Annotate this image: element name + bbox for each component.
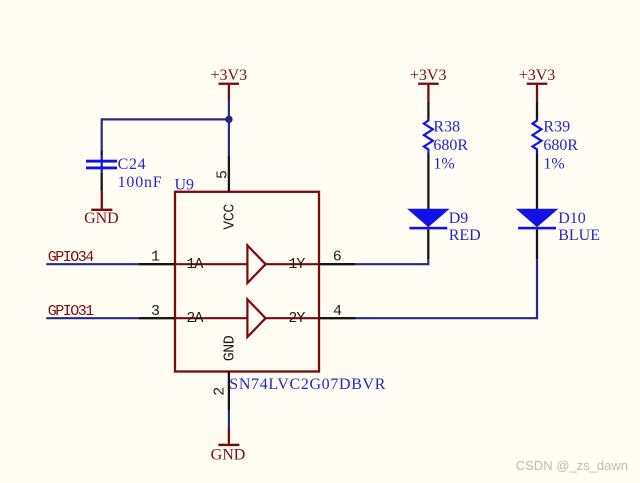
svg-text:680R: 680R xyxy=(543,137,578,154)
net label GPIO31 xyxy=(48,303,95,320)
svg-text:C24: C24 xyxy=(118,156,147,173)
svg-text:SN74LVC2G07DBVR: SN74LVC2G07DBVR xyxy=(229,376,386,393)
pin 6 xyxy=(319,249,355,266)
svg-text:RED: RED xyxy=(449,227,481,244)
buffer gate 1 triangle xyxy=(247,245,265,283)
svg-text:CSDN @_zs_dawn: CSDN @_zs_dawn xyxy=(516,458,628,473)
value label RED xyxy=(449,227,481,244)
pin 2 (GND pin of U9) xyxy=(212,372,229,411)
svg-text:R39: R39 xyxy=(543,119,570,136)
svg-text:+3V3: +3V3 xyxy=(410,67,447,84)
svg-text:1%: 1% xyxy=(433,156,454,173)
value label BLUE xyxy=(558,227,600,244)
wire VCC stub to pin 5 xyxy=(228,119,230,155)
designator label R38 xyxy=(433,119,460,136)
svg-text:2Y: 2Y xyxy=(288,310,305,327)
wire D10 to pin 4 xyxy=(356,259,539,319)
wire GPIO34 xyxy=(46,263,139,265)
pin 4 xyxy=(319,303,356,320)
watermark CSDN xyxy=(516,458,628,473)
resistor R38 xyxy=(424,101,433,209)
pin name VCC xyxy=(221,204,238,230)
wire GPIO31 xyxy=(46,317,139,319)
svg-text:5: 5 xyxy=(214,170,231,179)
svg-text:BLUE: BLUE xyxy=(558,227,600,244)
designator label D9 xyxy=(449,210,469,227)
buffer gate 1 internal wires xyxy=(176,263,319,265)
svg-text:100nF: 100nF xyxy=(118,174,163,191)
value label 680R (R39) xyxy=(543,137,578,154)
svg-text:D9: D9 xyxy=(449,210,469,227)
svg-text:680R: 680R xyxy=(433,137,468,154)
svg-text:VCC: VCC xyxy=(221,204,238,230)
value label 680R (R38) xyxy=(433,137,468,154)
part number SN74LVC2G07DBVR xyxy=(229,376,386,393)
svg-text:6: 6 xyxy=(333,249,342,266)
pin name GND (inside U9) xyxy=(221,335,238,361)
designator label C24 xyxy=(118,156,147,173)
svg-text:1%: 1% xyxy=(543,156,564,173)
svg-text:1: 1 xyxy=(151,249,160,266)
pin 1 xyxy=(139,249,175,266)
wire C24 vertical drop xyxy=(101,118,103,151)
pin name 2Y xyxy=(288,310,305,327)
designator label R39 xyxy=(543,119,570,136)
svg-text:GND: GND xyxy=(211,446,246,463)
svg-text:+3V3: +3V3 xyxy=(211,67,248,84)
svg-text:2A: 2A xyxy=(186,310,203,327)
svg-text:D10: D10 xyxy=(558,210,586,227)
svg-text:3: 3 xyxy=(151,303,160,320)
wire VCC vertical (power symbol to junction) xyxy=(228,100,230,119)
pin name 1A xyxy=(186,256,203,273)
svg-text:U9: U9 xyxy=(175,176,195,193)
svg-text:+3V3: +3V3 xyxy=(519,67,556,84)
tolerance label 1% (R39) xyxy=(543,156,564,173)
svg-text:GND: GND xyxy=(84,210,119,227)
designator label D10 xyxy=(558,210,586,227)
LED D10 (BLUE) xyxy=(517,209,557,259)
power symbol +3V3 (VCC net, above U9) xyxy=(211,67,248,100)
svg-text:2: 2 xyxy=(212,387,229,396)
ground GND (below C24) xyxy=(84,192,119,227)
svg-text:4: 4 xyxy=(333,303,342,320)
value label 100nF xyxy=(118,174,163,191)
pin 3 xyxy=(139,303,175,320)
pin 5 (VCC pin of U9) xyxy=(214,156,231,192)
capacitor C24 100nF xyxy=(86,151,117,192)
svg-text:1A: 1A xyxy=(186,256,203,273)
power symbol +3V3 (above R38) xyxy=(410,67,447,101)
buffer gate 2 triangle xyxy=(247,299,265,337)
ground GND (U9 pin 2) xyxy=(211,427,246,463)
wire D9 to pin 6 xyxy=(355,259,429,264)
resistor R39 xyxy=(533,101,542,209)
junction dot (VCC node) xyxy=(225,116,232,123)
LED D9 (RED) xyxy=(408,209,448,259)
buffer gate 2 internal wires xyxy=(176,317,319,319)
net label GPIO34 xyxy=(48,249,95,266)
designator U9 xyxy=(175,176,195,193)
pin name 1Y xyxy=(288,256,305,273)
wire VCC horizontal (junction to C24) xyxy=(102,118,229,120)
svg-text:1Y: 1Y xyxy=(288,256,305,273)
wire pin 2 to ground xyxy=(228,410,230,427)
tolerance label 1% (R38) xyxy=(433,156,454,173)
svg-text:R38: R38 xyxy=(433,119,460,136)
pin name 2A xyxy=(186,310,203,327)
power symbol +3V3 (above R39) xyxy=(519,67,556,101)
svg-text:GND: GND xyxy=(221,335,238,361)
op-amp U1 body: IC U9 outline xyxy=(175,192,319,372)
